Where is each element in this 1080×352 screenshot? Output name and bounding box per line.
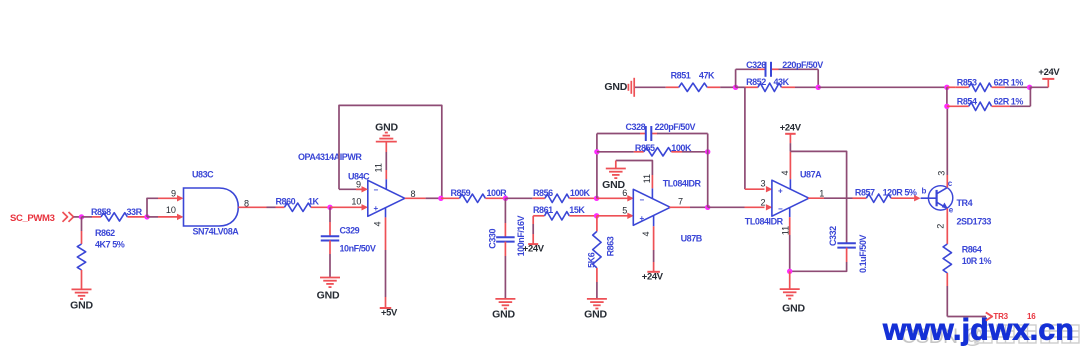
wire U87B pin4 to +24V (653, 215, 655, 271)
node R856 feedback junction (594, 196, 599, 201)
label pin 4 U84C (373, 221, 383, 226)
label C330 (487, 229, 497, 249)
label GND top rail (604, 81, 627, 93)
label pin 3 (761, 179, 766, 189)
node R853 right junction (1027, 85, 1032, 90)
label pin 1 (819, 189, 824, 199)
svg-text:100K: 100K (570, 188, 591, 198)
wire +24V branch to C332 (790, 151, 846, 243)
capacitor C332 (837, 243, 856, 247)
op-amp U87B (633, 189, 670, 225)
svg-text:U83C: U83C (192, 170, 214, 180)
label pin 8 U84C (411, 189, 416, 199)
power +5V (380, 307, 392, 309)
svg-text:+: + (640, 214, 645, 223)
svg-text:U87B: U87B (681, 234, 703, 244)
label pin 11 U84C (374, 163, 384, 172)
wire U87A pin11 (789, 207, 791, 271)
label 33R (127, 207, 143, 217)
svg-text:15K: 15K (569, 205, 585, 215)
capacitor C329 (321, 236, 340, 240)
label 5K6 (587, 252, 597, 268)
svg-text:C328: C328 (626, 122, 646, 132)
resistor R861 (533, 212, 596, 220)
label R864 (962, 245, 982, 255)
watermark CSDN gray (901, 325, 1079, 348)
svg-text:47K: 47K (699, 71, 715, 81)
label 4K7 5% (95, 240, 125, 250)
svg-text:R851: R851 (671, 71, 691, 81)
node feedback R855 left junction (594, 149, 599, 154)
svg-text:R863: R863 (606, 236, 616, 256)
svg-text:TL084IDR: TL084IDR (663, 179, 702, 189)
svg-text:OPA4314AIPWR: OPA4314AIPWR (298, 152, 362, 162)
svg-text:GND: GND (602, 179, 625, 191)
label +24V U87B (642, 270, 664, 281)
resistor R854 (947, 102, 1031, 110)
wire TR4 base arrow (914, 195, 921, 201)
wire C330 to gnd (504, 242, 506, 299)
wire U87B pin7 out (669, 206, 707, 208)
svg-text:+: + (778, 186, 783, 195)
wire U84C pin8 out (405, 197, 441, 199)
wire to +24V right (1030, 79, 1049, 87)
svg-text:2: 2 (936, 224, 946, 229)
svg-text:TR3: TR3 (993, 312, 1008, 321)
label 100K (570, 188, 591, 198)
op-amp U87A minus (778, 205, 783, 214)
label 100K R855 (671, 143, 692, 153)
wire U83C pin9 (158, 195, 184, 201)
svg-text:43K: 43K (774, 77, 790, 87)
power +24V U87A (780, 121, 802, 133)
label pin 7 (678, 197, 683, 207)
label pin 5 (622, 205, 627, 215)
resistor R862 (77, 231, 85, 283)
svg-text:+24V: +24V (642, 270, 664, 281)
wire U83C pin8 (238, 206, 275, 208)
power +24V U87B (647, 271, 660, 273)
wire R864 to TR3 (947, 286, 986, 317)
wire to U87B pin6 (597, 195, 634, 201)
wire feedback right vertical (707, 134, 709, 208)
label R854 (957, 96, 977, 106)
resistor R860 (276, 203, 331, 211)
label 220pF/50V C326 (782, 60, 823, 70)
svg-text:−: − (374, 185, 379, 194)
capacitor C326 wire (736, 68, 819, 70)
port SC_PWM3 label (10, 213, 55, 224)
wire U87B pin11 (616, 161, 653, 199)
svg-text:R860: R860 (276, 197, 296, 207)
wire C326 right vertical (817, 69, 819, 87)
ground C330 (495, 299, 515, 309)
label GND R862 (70, 300, 93, 312)
svg-text:R862: R862 (95, 228, 115, 238)
label pin 2 TR4 (936, 224, 946, 229)
label pin 3 TR4 (937, 171, 947, 176)
wire R853-R854 vertical (946, 87, 948, 106)
label 16 (1027, 312, 1036, 321)
capacitor C326 (766, 62, 772, 77)
label 0.1uF/50V C332 (858, 235, 868, 273)
node SC_PWM3 junction (79, 214, 84, 219)
svg-text:C330: C330 (487, 229, 497, 249)
svg-text:+: + (374, 204, 379, 213)
svg-text:+24V: +24V (780, 121, 802, 132)
svg-text:3: 3 (937, 171, 947, 176)
wire R862 to gnd (81, 283, 83, 289)
label +24V right (1038, 66, 1060, 77)
label pin 11 U87B (642, 174, 652, 183)
svg-text:www.jdwx.cn: www.jdwx.cn (882, 314, 1074, 347)
label 15K (569, 205, 585, 215)
wire feedback left vertical (596, 134, 598, 199)
label e (949, 206, 954, 215)
svg-text:4: 4 (373, 221, 383, 226)
resistor R863 top wire (596, 216, 598, 232)
svg-text:2SD1733: 2SD1733 (957, 217, 992, 227)
label TL084IDR U87A (745, 217, 784, 227)
svg-text:62R 1%: 62R 1% (994, 77, 1024, 87)
svg-text:8: 8 (411, 189, 416, 199)
svg-text:e: e (949, 206, 954, 215)
wire R858 left (82, 216, 93, 218)
wire C329 to gnd (329, 241, 331, 278)
svg-text:SN74LV08A: SN74LV08A (193, 227, 240, 237)
resistor R858 (92, 213, 147, 221)
svg-text:R852: R852 (746, 77, 766, 87)
label pin 4 U87B (641, 231, 651, 236)
label pin 9 U84C (356, 180, 361, 190)
svg-text:C332: C332 (828, 226, 838, 246)
svg-text:2: 2 (761, 198, 766, 208)
ground C329 (320, 278, 340, 288)
label +24V R861 (523, 242, 545, 253)
ground sideways (628, 78, 634, 97)
label R861 (533, 205, 553, 215)
svg-text:R857: R857 (855, 188, 875, 198)
svg-text:1K: 1K (308, 197, 320, 207)
label pin 9 (171, 189, 176, 199)
label pin 6 (622, 188, 627, 198)
wire top rail 3 (818, 86, 947, 88)
svg-text:+24V: +24V (523, 242, 545, 253)
svg-text:SC_PWM3: SC_PWM3 (10, 213, 55, 224)
svg-text:GND: GND (70, 300, 93, 312)
wire U84C pin9 feedback (339, 105, 442, 198)
label b (922, 187, 927, 196)
label 220pF/50V C328 (655, 122, 696, 132)
label pin 2 (761, 198, 766, 208)
transistor TR4 (921, 186, 953, 210)
wire U87A pin1 out (808, 197, 853, 199)
label 10nF/50V (340, 244, 376, 254)
svg-text:GND: GND (492, 309, 515, 321)
ground R862 (72, 289, 92, 299)
label pin 11 U87A (781, 226, 791, 235)
label U84C (348, 171, 370, 181)
label GND U87A (782, 303, 805, 315)
resistor R859 (441, 194, 506, 202)
svg-text:GND: GND (375, 122, 398, 134)
label GND R863 (584, 309, 607, 321)
node R854 junction (944, 104, 949, 109)
label 1K (308, 197, 320, 207)
label C332 (828, 226, 838, 246)
svg-text:4: 4 (641, 231, 651, 236)
svg-text:220pF/50V: 220pF/50V (655, 122, 696, 132)
label R855 (635, 143, 655, 153)
label c (948, 179, 953, 188)
node C330 junction (503, 196, 508, 201)
label TR3 (993, 312, 1008, 321)
label pin 10 U84C (351, 197, 361, 207)
svg-text:5K6: 5K6 (587, 252, 597, 268)
capacitor C328 wire (597, 133, 708, 135)
power +24V right (1042, 78, 1054, 80)
wire fork up to pin9 (147, 198, 158, 217)
svg-text:62R 1%: 62R 1% (994, 96, 1024, 106)
wire U84C pin11 (385, 142, 387, 190)
node R860 out junction (327, 205, 332, 210)
svg-text:5: 5 (622, 205, 627, 215)
ground R863 (587, 299, 607, 309)
label 100R (487, 188, 508, 198)
svg-text:TR4: TR4 (957, 198, 973, 208)
svg-text:3: 3 (761, 179, 766, 189)
ground U87B pin11 (606, 161, 626, 179)
svg-text:b: b (922, 187, 927, 196)
label 47K (699, 71, 715, 81)
label 62R 1% R853 (994, 77, 1024, 87)
ground U84C pin11 (inverted) (376, 133, 397, 142)
label R852 (746, 77, 766, 87)
node U84C out junction (438, 196, 443, 201)
svg-text:11: 11 (374, 163, 384, 172)
op-amp U84C minus (374, 185, 379, 194)
label R862 (95, 228, 115, 238)
svg-text:R856: R856 (533, 188, 553, 198)
label +5V (381, 307, 398, 318)
label R859 (451, 188, 471, 198)
node U87B out junction (705, 205, 710, 210)
resistor R863 (593, 231, 601, 282)
svg-text:R858: R858 (91, 207, 111, 217)
watermark www.jdwx.cn (882, 314, 1074, 347)
svg-text:−: − (640, 195, 645, 204)
label U83C (192, 170, 214, 180)
label C326 (746, 60, 766, 70)
label R863 (606, 236, 616, 256)
node feedback R855 right junction (705, 149, 710, 154)
node R852 junction (816, 85, 821, 90)
label C329 (340, 225, 360, 235)
label pin 4 U87A (780, 170, 790, 175)
and-gate U83C (184, 188, 239, 226)
label pin 8 (244, 198, 249, 208)
svg-text:11: 11 (781, 226, 791, 235)
wire top rail 2 (720, 86, 735, 88)
power +24V R861 (528, 216, 538, 244)
resistor R862 branch wire (81, 217, 83, 231)
resistor R857 (853, 194, 915, 202)
label TR4 (957, 198, 973, 208)
svg-text:9: 9 (171, 189, 176, 199)
svg-text:100K: 100K (671, 143, 692, 153)
resistor R855 (597, 148, 708, 156)
svg-text:−: − (778, 205, 783, 214)
label U87A (800, 170, 822, 180)
svg-text:10R 1%: 10R 1% (962, 256, 992, 266)
svg-text:R861: R861 (533, 205, 553, 215)
svg-text:4K7 5%: 4K7 5% (95, 240, 125, 250)
svg-text:16: 16 (1027, 312, 1036, 321)
svg-text:+24V: +24V (1038, 66, 1060, 77)
svg-text:10: 10 (351, 197, 361, 207)
wire to U87B pin5 (597, 213, 634, 219)
label GND C330 (492, 309, 515, 321)
label U87B (681, 234, 703, 244)
op-amp U87A plus (778, 186, 783, 195)
node U87A gnd junction (787, 269, 792, 274)
wire top rail 1 (635, 86, 666, 88)
resistor R852 (736, 83, 819, 91)
resistor R864 (943, 231, 951, 286)
svg-text:1: 1 (819, 189, 824, 199)
label R860 (276, 197, 296, 207)
svg-text:R864: R864 (962, 245, 982, 255)
svg-text:C329: C329 (340, 225, 360, 235)
svg-text:0.1uF/50V: 0.1uF/50V (858, 235, 868, 273)
node fork junction (144, 214, 149, 219)
label R858 (91, 207, 111, 217)
label C328 (626, 122, 646, 132)
wire U87A pin2 (708, 204, 773, 210)
svg-text:10: 10 (166, 205, 176, 215)
wire U87A pin3 (745, 87, 773, 192)
wire U83C pin10 (147, 214, 184, 220)
svg-text:GND: GND (604, 81, 627, 93)
svg-text:R853: R853 (957, 77, 977, 87)
label GND C329 (317, 290, 340, 302)
label R856 (533, 188, 553, 198)
svg-text:7: 7 (678, 197, 683, 207)
label 100nF/16V (516, 215, 526, 256)
label R853 (957, 77, 977, 87)
wire R854 up (1029, 87, 1031, 106)
label OPA4314AIPWR (298, 152, 362, 162)
label 2SD1733 (957, 217, 992, 227)
node R851 junction (733, 85, 738, 90)
svg-text:220pF/50V: 220pF/50V (782, 60, 823, 70)
resistor R853 (947, 83, 1030, 91)
svg-text:+5V: +5V (381, 307, 398, 318)
label TL084IDR U87B (663, 179, 702, 189)
node R853 junction (944, 85, 949, 90)
op-amp U84C (368, 180, 405, 216)
wire U87A pin4 (789, 134, 791, 190)
svg-text:R855: R855 (635, 143, 655, 153)
capacitor C330 top wire (504, 198, 506, 237)
capacitor C328 (646, 126, 652, 141)
svg-text:11: 11 (642, 174, 652, 183)
svg-text:R854: R854 (957, 96, 977, 106)
label 120R 5% (883, 188, 917, 198)
svg-text:9: 9 (356, 180, 361, 190)
port TR3 chevron (986, 312, 992, 320)
wire U84C pin4 to +5V (385, 208, 387, 308)
svg-text:10nF/50V: 10nF/50V (340, 244, 376, 254)
svg-text:120R 5%: 120R 5% (883, 188, 917, 198)
label R857 (855, 188, 875, 198)
svg-text:33R: 33R (127, 207, 143, 217)
svg-text:GND: GND (782, 303, 805, 315)
label 62R 1% R854 (994, 96, 1024, 106)
resistor R851 (666, 83, 720, 91)
capacitor C330 (496, 237, 515, 241)
svg-text:4: 4 (780, 170, 790, 175)
wire TR4 emitter (946, 208, 948, 231)
port SC_PWM3 chevron (63, 212, 82, 222)
svg-text:U87A: U87A (800, 170, 822, 180)
svg-text:8: 8 (244, 198, 249, 208)
label pin 10 (166, 205, 176, 215)
wire junction to gnd (789, 271, 791, 289)
label SN74LV08A (193, 227, 240, 237)
label R851 (671, 71, 691, 81)
svg-text:c: c (948, 179, 953, 188)
svg-text:TL084IDR: TL084IDR (745, 217, 784, 227)
ground U84C pin11 label (375, 122, 398, 134)
svg-text:GND: GND (317, 290, 340, 302)
wire C326 left vertical (735, 69, 737, 87)
label 43K (774, 77, 790, 87)
wire R863 to gnd (596, 282, 598, 299)
svg-text:R859: R859 (451, 188, 471, 198)
ground U87A (780, 289, 800, 299)
label GND U87B (602, 179, 625, 191)
wire to U84C pin10 (330, 204, 368, 210)
svg-text:GND: GND (584, 309, 607, 321)
op-amp U84C plus (374, 204, 379, 213)
label 10R 1% (962, 256, 992, 266)
op-amp U87A (772, 180, 809, 216)
op-amp U87B minus (640, 195, 645, 204)
op-amp U87B plus (640, 214, 645, 223)
wire TR4 collector (946, 106, 948, 187)
wire C332 bottom (790, 248, 847, 272)
capacitor C329 top wire (329, 207, 331, 236)
resistor R856 (506, 194, 598, 202)
svg-text:C326: C326 (746, 60, 766, 70)
node R861 junction (594, 213, 599, 218)
